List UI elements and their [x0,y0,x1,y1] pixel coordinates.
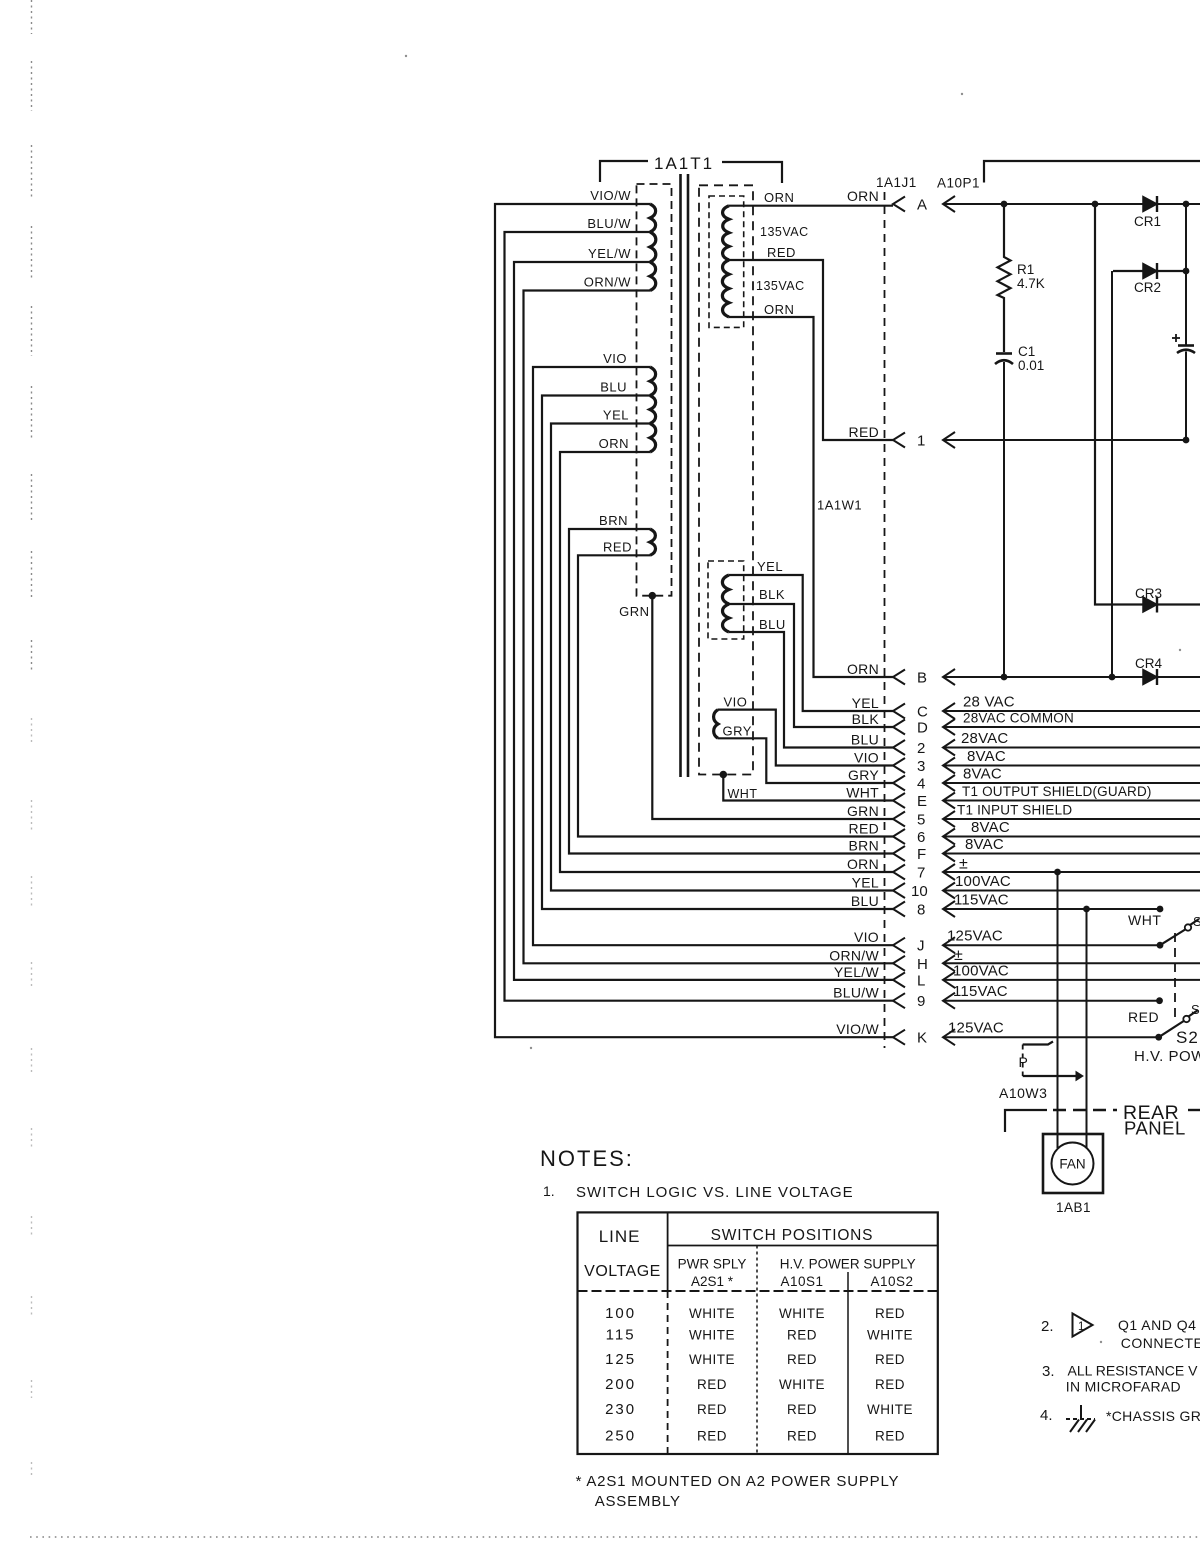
capacitor (polarized filter cap) [1172,204,1195,440]
svg-text:1: 1 [1078,1321,1084,1333]
wire fan feed from pin7 line [1054,869,1061,1148]
svg-text:C1: C1 [1018,344,1035,359]
svg-text:P: P [1019,1054,1028,1070]
svg-text:T1 INPUT SHIELD: T1 INPUT SHIELD [957,803,1072,818]
svg-text:H.V. POWE: H.V. POWE [1134,1048,1200,1065]
pin 5 of connector 1A1J1 (chevron, arrow, labels) [847,803,1200,829]
svg-text:BLU: BLU [600,380,627,395]
svg-text:A10S2: A10S2 [870,1274,913,1289]
svg-text:YEL/W: YEL/W [834,964,880,980]
svg-text:VIO: VIO [854,929,879,945]
wire BLK secondary to connector [729,604,893,727]
label BLU/W (primary tap) [587,216,631,231]
label RED [1128,1009,1159,1025]
svg-text:BLK: BLK [852,711,880,727]
svg-text:VIO/W: VIO/W [836,1021,879,1037]
wire GRN shield to pin 5 [652,596,893,819]
svg-text:RED: RED [603,539,632,554]
svg-text:YEL: YEL [603,408,629,423]
label CR3 [1135,586,1162,601]
svg-text:ORN/W: ORN/W [584,275,632,290]
note 2 symbol (numbered triangle) [1041,1314,1093,1337]
wire RED primary tap to connector [578,555,893,836]
pin K of connector 1A1J1 (chevron, arrow, labels) [836,1020,1158,1047]
label CR2 [1134,280,1161,295]
svg-text:RED: RED [787,1402,817,1417]
svg-text:100: 100 [605,1305,636,1322]
pin 3 of connector 1A1J1 (chevron, arrow, labels) [854,748,1200,775]
svg-text:200: 200 [605,1376,636,1393]
svg-text:RED: RED [875,1306,905,1321]
pin C of connector 1A1J1 (chevron, arrow, labels) [852,694,1200,721]
junction dots on pin A line [1001,201,1190,208]
label RED (primary tap) [603,539,632,554]
svg-text:A10S1: A10S1 [780,1274,823,1289]
svg-text:H: H [917,956,928,973]
pin 9 of connector 1A1J1 (chevron, arrow, labels) [833,983,1159,1010]
svg-text:230: 230 [605,1401,636,1418]
secondary shield dashed box [699,185,753,774]
svg-text:RED: RED [697,1377,727,1392]
label C1 0.01 [1018,344,1044,373]
transformer 1A1T1 label and bracket [600,154,782,183]
svg-text:28VAC COMMON: 28VAC COMMON [963,711,1074,726]
svg-text:1AB1: 1AB1 [1056,1200,1091,1215]
label S2-1 contact (clipped) [1193,914,1200,929]
svg-text:PWR SPLY: PWR SPLY [678,1257,747,1272]
note 4 chassis ground symbol [1040,1405,1095,1432]
pin 4 of connector 1A1J1 (chevron, arrow, labels) [848,766,1200,793]
label BLU (secondary) [759,617,786,632]
wire BLU/W primary tap to connector [505,232,894,1001]
svg-text:125: 125 [605,1351,636,1368]
svg-text:PANEL: PANEL [1124,1118,1186,1139]
note 3 text (clipped) [1042,1363,1198,1395]
rear panel boundary line [1005,1110,1200,1132]
table header LINE VOLTAGE [584,1227,661,1280]
label WHT [1128,912,1161,928]
pin F of connector 1A1J1 (chevron, arrow, labels) [849,836,1200,863]
pin B of connector 1A1J1 (chevron, arrow, labels) [847,661,1200,687]
svg-text:YEL/W: YEL/W [588,246,631,261]
svg-text:8VAC: 8VAC [967,748,1006,765]
svg-text:RED: RED [1128,1009,1159,1025]
label GRN [619,604,649,619]
svg-text:BLU/W: BLU/W [833,985,879,1001]
svg-text:YEL: YEL [852,875,879,891]
svg-text:4: 4 [917,776,925,793]
svg-text:100VAC: 100VAC [955,873,1011,890]
svg-text:H.V. POWER SUPPLY: H.V. POWER SUPPLY [780,1257,916,1272]
svg-text:ASSEMBLY: ASSEMBLY [595,1493,681,1510]
svg-text:*CHASSIS GRO: *CHASSIS GRO [1106,1408,1200,1424]
label 135VAC (secondary) [760,225,809,239]
svg-text:BRN: BRN [599,513,628,528]
svg-text:WHT: WHT [728,787,758,801]
wire vertical CR1-to-CR3 bus [1095,204,1200,605]
svg-text:YEL: YEL [757,559,783,574]
svg-text:Q1 AND Q4 A: Q1 AND Q4 A [1118,1317,1200,1333]
label ORN/W (primary tap) [584,275,632,290]
pin 7 of connector 1A1J1 (chevron, arrow, labels) [847,856,1200,882]
svg-text:SWITCH POSITIONS: SWITCH POSITIONS [711,1227,874,1244]
table header SWITCH POSITIONS [711,1227,874,1244]
svg-text:RED: RED [697,1429,727,1444]
pin 2 of connector 1A1J1 (chevron, arrow, labels) [851,730,1200,757]
svg-text:GRY: GRY [848,767,879,783]
label S2-2 contact (clipped) [1191,1002,1200,1017]
switch S2 upper section (115/125VAC select) [1157,906,1199,949]
svg-text:WHITE: WHITE [779,1306,825,1321]
svg-text:GRN: GRN [619,604,649,619]
svg-text:BLU: BLU [851,893,879,909]
secondary winding S1 dashed box [709,196,744,327]
svg-text:28 VAC: 28 VAC [963,694,1015,711]
svg-text:RED: RED [787,1328,817,1343]
label S2 [1176,1028,1199,1047]
svg-text:10: 10 [911,883,928,900]
label VIO/W (primary tap) [590,188,631,203]
table row 125 [605,1351,905,1368]
pin J of connector 1A1J1 (chevron, arrow, labels) [854,928,1160,955]
svg-text:A10P1: A10P1 [937,176,980,191]
svg-text:8: 8 [917,902,925,919]
label ORN (secondary) [764,302,794,317]
label GRY (secondary) [723,724,752,739]
svg-text:FAN: FAN [1059,1157,1085,1172]
svg-text:ORN: ORN [764,190,794,205]
primary winding section 1 (VIO/W BLU/W YEL/W ORN/W taps) [650,204,656,291]
svg-text:E: E [917,793,927,810]
diode CR1 [1143,196,1157,212]
svg-text:CONNECTED: CONNECTED [1121,1335,1200,1351]
label YEL (secondary) [757,559,783,574]
svg-text:1A1J1: 1A1J1 [876,175,917,190]
svg-text:L: L [917,972,925,989]
svg-text:ALL RESISTANCE V: ALL RESISTANCE V [1068,1363,1199,1379]
svg-text:115VAC: 115VAC [953,983,1008,1000]
svg-text:RED: RED [875,1352,905,1367]
svg-text:8VAC: 8VAC [971,819,1010,836]
primary shield dashed box [637,184,672,596]
table row 115 [606,1327,913,1344]
svg-text:RED: RED [875,1377,905,1392]
svg-text:VIO: VIO [724,695,748,710]
svg-text:A: A [917,197,927,214]
svg-text:250: 250 [605,1428,636,1445]
svg-text:SWITCH LOGIC VS. LINE VOLT: SWITCH LOGIC VS. LINE VOLTAGE [576,1184,854,1201]
svg-text:D: D [917,720,928,737]
svg-text:IN MICROFARAD: IN MICROFARAD [1066,1379,1181,1395]
wire BRN primary tap to connector [569,529,893,854]
wire RED center-tap secondary to connector [729,260,893,440]
pin A of connector 1A1J1 (chevron, arrow, labels) [847,188,1200,214]
pin 1 of connector 1A1J1 (chevron, arrow, labels) [849,424,1186,450]
svg-text:VIO/W: VIO/W [590,188,631,203]
svg-text:ORN: ORN [764,302,794,317]
label WHT (secondary) [728,787,758,801]
note 4 text (clipped) [1106,1408,1200,1424]
svg-text:WHITE: WHITE [689,1352,735,1367]
svg-text:RED: RED [787,1352,817,1367]
wire VIO/W primary tap to connector [495,204,893,1037]
label CR1 [1134,214,1161,229]
svg-text:±: ± [959,856,968,873]
svg-text:1: 1 [917,433,925,450]
wire VIO primary tap to connector [533,367,893,945]
wire WHT shield secondary to connector [723,775,893,801]
wire ORN/W primary tap to connector [524,291,894,964]
label P [1019,1054,1028,1070]
svg-text:BLK: BLK [759,587,785,602]
svg-text:135VAC: 135VAC [756,279,805,293]
svg-text:9: 9 [917,993,925,1010]
pin H of connector 1A1J1 (chevron, arrow, labels) [829,947,1200,973]
svg-text:8VAC: 8VAC [965,836,1004,853]
svg-text:2.: 2. [1041,1318,1054,1335]
label RED (secondary) [767,245,796,260]
wire ORN primary tap to connector [560,452,893,872]
svg-text:GRN: GRN [847,803,879,819]
svg-text:RED: RED [875,1429,905,1444]
connector A10P1 bracket [984,161,1200,183]
wire ORN top secondary to connector [729,205,893,207]
wire BLU secondary to connector [729,632,893,748]
svg-text:ORN/W: ORN/W [829,947,879,963]
secondary winding S1 (ORN 135VAC RED 135VAC ORN) [722,206,729,317]
secondary winding S2 (YEL BLK BLU) [722,575,729,632]
fan motor circle [1052,1143,1094,1185]
svg-text:S: S [1191,1002,1200,1017]
svg-text:RED: RED [767,245,796,260]
label BLK (secondary) [759,587,785,602]
svg-text:A10W3: A10W3 [999,1085,1047,1101]
svg-text:RED: RED [849,424,879,440]
svg-text:BLU: BLU [759,617,786,632]
svg-text:WHITE: WHITE [867,1328,913,1343]
svg-text:3: 3 [917,758,925,775]
transformer T1 core [681,174,689,777]
junction dot CR2 output [1183,268,1190,275]
svg-text:R1: R1 [1017,262,1034,277]
table row 230 [605,1401,913,1418]
svg-text:WHT: WHT [1128,912,1161,928]
label 1AB1 [1056,1200,1091,1215]
primary winding section 3 (BRN RED) [650,529,656,555]
svg-text:2: 2 [917,740,925,757]
svg-text:0.01: 0.01 [1018,358,1044,373]
svg-text:VIO: VIO [603,351,627,366]
svg-text:RED: RED [697,1402,727,1417]
table header PWR SPLY A2S1 [678,1257,747,1290]
primary winding section 2 (VIO BLU YEL ORN taps) [650,367,656,452]
svg-text:115: 115 [606,1327,636,1344]
svg-text:135VAC: 135VAC [760,225,809,239]
label ORN (secondary) [764,190,794,205]
svg-text:S2: S2 [1176,1028,1199,1047]
wire YEL primary tap to connector [551,424,893,891]
diode CR3 [1143,597,1157,613]
label FAN [1059,1157,1085,1172]
table header H.V. POWER SUPPLY A10S1 A10S2 [780,1257,916,1290]
svg-text:115VAC: 115VAC [954,892,1009,909]
svg-text:8VAC: 8VAC [963,766,1002,783]
capacitor C1 [995,354,1013,678]
svg-text:A2S1 *: A2S1 * [691,1274,734,1289]
label VIO (primary tap) [603,351,627,366]
svg-text:C: C [917,704,928,721]
svg-text:1A1W1: 1A1W1 [817,498,862,513]
svg-text:BLU: BLU [851,732,879,748]
pin L of connector 1A1J1 (chevron, arrow, labels) [834,962,1200,989]
svg-text:GRY: GRY [723,724,752,739]
pin E of connector 1A1J1 (chevron, arrow, labels) [846,784,1200,810]
svg-text:WHITE: WHITE [779,1377,825,1392]
label VIO (secondary) [724,695,748,710]
label ORN (primary tap) [599,436,629,451]
junction dot pin1 line end [1183,437,1190,444]
label BRN (primary tap) [599,513,628,528]
svg-text:VIO: VIO [854,750,879,766]
label R1 4.7K [1017,262,1045,291]
svg-text:5: 5 [917,812,925,829]
svg-text:7: 7 [917,865,925,882]
wire CR2 branch [1112,271,1186,677]
secondary winding S2 dashed box [708,561,744,639]
svg-text:ORN: ORN [599,436,629,451]
label 135VAC (secondary) [756,279,805,293]
switch S2 gang link (dashed) [1174,933,1176,1018]
svg-text:YEL: YEL [852,695,879,711]
wire VIO secondary to connector [718,710,893,766]
label YEL/W (primary tap) [588,246,631,261]
svg-text:4.7K: 4.7K [1017,276,1045,291]
svg-text:S: S [1193,914,1200,929]
table row 200 [605,1376,905,1393]
svg-text:RED: RED [849,821,879,837]
wire GRY secondary to connector [718,738,893,783]
label A10W3 [999,1085,1047,1101]
label H.V. POWER (clipped) [1134,1048,1200,1065]
pin 8 of connector 1A1J1 (chevron, arrow, labels) [851,892,1160,919]
svg-text:F: F [917,846,926,863]
svg-text:CR3: CR3 [1135,586,1162,601]
svg-text:1A1T1: 1A1T1 [654,154,714,173]
svg-text:1.: 1. [543,1183,555,1199]
svg-text:6: 6 [917,829,925,846]
svg-text:ORN: ORN [847,188,879,204]
diode CR4 [1143,669,1157,685]
svg-text:T1 OUTPUT SHIELD(GUARD): T1 OUTPUT SHIELD(GUARD) [962,784,1152,799]
pin 6 of connector 1A1J1 (chevron, arrow, labels) [849,819,1200,846]
resistor R1 [998,204,1011,352]
wire BLU primary tap to connector [542,396,893,910]
svg-text:CR4: CR4 [1135,656,1162,671]
connector P of cable A10W3 [1023,1042,1083,1081]
table row 250 [605,1428,905,1445]
label 1A1W1 cable [817,498,862,513]
fan motor B1 box [1043,1134,1103,1193]
wire fan feed from pin8 line [1083,906,1090,1148]
table row 100 [605,1305,905,1322]
svg-text:4.: 4. [1040,1407,1053,1424]
svg-text:WHITE: WHITE [689,1306,735,1321]
node WHT shield tap (junction) [720,771,728,779]
svg-text:ORN: ORN [847,661,879,677]
svg-text:RED: RED [787,1429,817,1444]
svg-text:WHITE: WHITE [689,1328,735,1343]
note 1 text [543,1183,854,1201]
connector 1A1J1 dashed boundary [884,192,886,1048]
svg-text:125VAC: 125VAC [948,1020,1004,1037]
label CR4 [1135,656,1162,671]
svg-text:100VAC: 100VAC [953,962,1009,979]
label 1A1J1 [876,175,917,190]
diode CR2 [1143,263,1157,279]
pin 10 of connector 1A1J1 (chevron, arrow, labels) [852,873,1200,900]
junction dots on pin B line [1001,674,1116,681]
label A10P1 [937,176,980,191]
secondary winding S3 (VIO GRY) [714,710,718,739]
svg-text:WHT: WHT [846,785,879,801]
svg-text:ORN: ORN [847,856,879,872]
svg-text:CR2: CR2 [1134,280,1161,295]
svg-text:* A2S1 MOUNTED ON A2 POWER SU: * A2S1 MOUNTED ON A2 POWER SUPPLY [576,1473,900,1490]
svg-text:VOLTAGE: VOLTAGE [584,1263,661,1280]
svg-text:LINE: LINE [599,1227,641,1246]
svg-text:K: K [917,1030,927,1047]
svg-text:BRN: BRN [849,838,879,854]
svg-text:±: ± [954,947,963,964]
svg-text:J: J [917,938,925,955]
wire YEL/W primary tap to connector [514,262,893,980]
pin D of connector 1A1J1 (chevron, arrow, labels) [852,711,1200,737]
notes heading [540,1146,634,1171]
svg-text:B: B [917,670,927,687]
switch S2 lower section [1155,997,1198,1040]
wire ORN bottom secondary to connector [729,317,893,677]
node GRN shield tap (junction) [649,592,657,600]
wire YEL secondary to connector [729,575,893,711]
svg-text:WHITE: WHITE [867,1402,913,1417]
svg-text:NOTES:: NOTES: [540,1146,634,1171]
svg-text:BLU/W: BLU/W [587,216,631,231]
svg-text:3.: 3. [1042,1363,1055,1380]
label YEL (primary tap) [603,408,629,423]
note 2 text (clipped) [1118,1317,1200,1351]
svg-text:CR1: CR1 [1134,214,1161,229]
table footnote [576,1473,900,1510]
svg-text:125VAC: 125VAC [947,928,1003,945]
label BLU (primary tap) [600,380,627,395]
svg-text:28VAC: 28VAC [961,730,1008,747]
note 1 switch logic table frame [578,1212,938,1454]
label REAR PANEL [1123,1102,1186,1139]
